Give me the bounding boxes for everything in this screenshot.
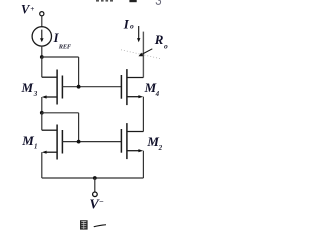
gate rail 2 (M1-M2 gates) <box>62 141 121 143</box>
M2 channel bar <box>126 123 128 159</box>
current source IREF circle <box>32 27 51 46</box>
svg-text:2: 2 <box>158 144 163 152</box>
transistor M2 <box>121 123 143 159</box>
node B junction dot <box>40 111 44 115</box>
svg-text:o: o <box>164 41 168 50</box>
wire M3 source down to node B <box>41 97 43 113</box>
figure caption glyph (CJK tu character box) <box>80 220 88 229</box>
bottom rail junction dot <box>93 176 97 180</box>
svg-text:REF: REF <box>58 43 72 50</box>
junction dot rail1/gate drop <box>77 85 81 89</box>
M2 source lead <box>127 150 141 152</box>
M2 drain lead <box>127 131 143 133</box>
transistor M4 <box>121 69 143 105</box>
svg-text:M: M <box>21 80 34 95</box>
svg-text:1: 1 <box>34 143 38 151</box>
Ro pointer arrow <box>139 49 153 56</box>
svg-text:3: 3 <box>33 90 38 98</box>
svg-text:M: M <box>146 134 159 149</box>
M1 source arrow (points left) <box>42 151 47 154</box>
M1 channel bar <box>56 125 58 160</box>
svg-text:−: − <box>99 197 104 206</box>
junction dot rail2/gate drop2 <box>77 140 81 144</box>
wire node B down to M1 drain corner <box>41 113 43 130</box>
svg-text:M: M <box>21 133 34 148</box>
cropped text fragment specks top-left <box>96 0 113 2</box>
transistor M1 <box>42 125 63 160</box>
transistor M3 <box>42 70 63 105</box>
M1 drain lead <box>42 129 57 131</box>
M4 source arrow (points right) <box>138 95 143 98</box>
cropped glyph fragment (g descender) top right <box>156 0 160 4</box>
wire node B right to gate drop 2 <box>42 112 79 114</box>
Ro measurement dotted line <box>121 50 161 59</box>
wire gate drop 2 vertical to rail 2 <box>78 113 80 142</box>
M2 gate bar <box>120 129 122 153</box>
output wire (right branch top) <box>142 32 144 78</box>
wire M1 source down to bottom rail <box>41 152 43 178</box>
M3 channel bar <box>56 70 58 105</box>
Io current arrow (down) <box>137 26 140 42</box>
stub to V- terminal <box>94 178 96 192</box>
bottom rail wire <box>42 177 144 179</box>
cropped text dark dash top <box>129 0 136 2</box>
figure caption dash (yi) <box>94 224 107 227</box>
svg-text:o: o <box>130 22 134 31</box>
svg-text:+: + <box>30 5 34 13</box>
M3 source lead <box>44 96 57 98</box>
M2 source arrow (points right) <box>138 149 143 152</box>
M4 channel bar <box>126 69 128 105</box>
M3 gate bar <box>61 76 63 99</box>
wire V+ terminal to current source <box>41 16 43 27</box>
wire M4 source down to M2 drain <box>142 97 144 132</box>
wire gate drop vertical (to rail 1) <box>78 57 80 87</box>
wire current source to node A <box>41 46 43 57</box>
wire node A down to M3 drain corner <box>41 57 43 77</box>
terminal V+ <box>40 12 44 16</box>
M3 drain lead <box>42 76 57 78</box>
M1 source lead <box>44 151 57 153</box>
terminal V- <box>93 192 98 197</box>
M4 drain lead <box>127 77 143 79</box>
svg-text:I: I <box>123 17 130 32</box>
gate rail 1 (M3-M4 gates) <box>62 86 121 88</box>
M3 source arrow (points left) <box>42 95 47 98</box>
svg-text:4: 4 <box>155 90 160 98</box>
svg-text:R: R <box>154 32 164 47</box>
wire M2 source down to bottom rail <box>142 151 144 178</box>
node A junction dot <box>40 55 44 59</box>
wire node A right (to gate drop) <box>42 56 79 58</box>
M4 source lead <box>127 96 141 98</box>
M1 gate bar <box>61 130 63 154</box>
M4 gate bar <box>120 75 122 99</box>
current source arrow (down) <box>40 30 44 43</box>
